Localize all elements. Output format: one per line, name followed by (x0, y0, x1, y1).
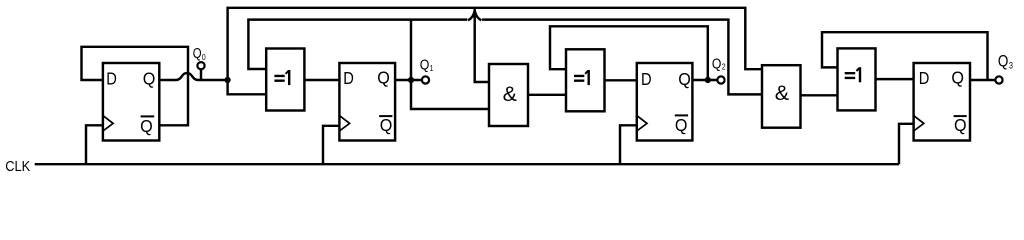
wire FF0 Q output with hop over feedback (159, 73, 227, 80)
node A junction of Q0 (225, 77, 231, 83)
svg-text:Q: Q (377, 68, 390, 88)
wire FF1 clock riser (323, 126, 339, 164)
wire XOR1 output to FF1 D (304, 79, 339, 81)
terminal Q1 (422, 76, 429, 83)
label Q1 (420, 57, 434, 74)
svg-text:0: 0 (202, 52, 206, 62)
wire FF2 clock riser (620, 125, 637, 164)
wire CLK bus (35, 163, 899, 165)
svg-text:D: D (106, 68, 117, 88)
wire FF3 clock riser (899, 124, 914, 164)
label Q0 (193, 46, 206, 62)
svg-text:Q: Q (951, 68, 964, 88)
wire XOR3 output to FF3 D (876, 78, 914, 80)
wire node B down to AND1 lower input (411, 80, 489, 109)
arrow head joining line 2 into line 1 (468, 11, 481, 21)
wire FF2 Q output (692, 79, 716, 81)
svg-text:3: 3 (1009, 60, 1013, 70)
terminal Q0 (197, 62, 204, 80)
svg-text:&: & (775, 81, 789, 105)
terminal Q2 (717, 76, 724, 83)
svg-text:&: & (503, 82, 517, 106)
wire FF0 feedback loop Q-bar to D (82, 47, 189, 126)
svg-text:Q: Q (143, 68, 156, 88)
wire arrow vertical down to AND1 upper input (475, 8, 489, 82)
xor gate XOR2 (566, 49, 605, 111)
wire AND1 output to XOR2 lower input (528, 94, 566, 96)
terminal Q3 (995, 76, 1002, 83)
svg-text:Q: Q (420, 57, 430, 74)
label Q3 (998, 53, 1013, 71)
svg-text:Q: Q (193, 46, 202, 62)
wire feedback line 2 left segment to XOR1 upper input (248, 20, 467, 69)
wire feedback line 2 right segment down to AND2 lower input (482, 20, 762, 95)
wire FF1 Q output (395, 79, 421, 81)
flip-flop FF0 (103, 63, 159, 141)
wire FF0 clock riser (86, 125, 103, 164)
svg-text:Q: Q (954, 115, 967, 135)
flip-flop FF3 (914, 63, 970, 141)
svg-text:Q: Q (380, 115, 393, 135)
label Q2 (712, 56, 726, 73)
wire XOR2 output to FF2 D (605, 79, 637, 81)
node C junction of Q2 (705, 77, 711, 83)
and gate AND1 (489, 64, 528, 126)
svg-text:Q: Q (675, 115, 688, 135)
wire feedback line 1 from node A across top down to AND2 upper input (228, 8, 762, 80)
flip-flop FF2 (637, 63, 693, 141)
xor gate XOR1 (266, 49, 304, 111)
wire FF3 Q output (970, 79, 995, 81)
svg-text:1: 1 (430, 64, 434, 73)
svg-text:Q: Q (712, 56, 722, 73)
wire feedback line 3 from XOR2 upper input across top to node C (550, 26, 708, 80)
wire feedback line 4 from XOR3 upper input across top down to Q3 wire (822, 32, 988, 80)
svg-text:CLK: CLK (5, 158, 30, 175)
node B junction of Q1 (408, 77, 414, 83)
svg-text:D: D (641, 69, 652, 89)
xor gate XOR3 (838, 48, 876, 110)
svg-text:D: D (919, 68, 930, 88)
svg-text:Q: Q (998, 53, 1009, 71)
flip-flop FF1 (339, 63, 395, 141)
and gate AND2 (762, 65, 801, 128)
wire AND2 output to XOR3 lower input (801, 94, 838, 96)
svg-text:Q: Q (678, 69, 691, 89)
svg-text:Q: Q (140, 116, 153, 136)
wire node B riser to line 2 (410, 20, 412, 80)
svg-text:D: D (343, 68, 354, 88)
wire node A to XOR1 lower input (228, 80, 267, 94)
svg-text:2: 2 (722, 63, 726, 72)
